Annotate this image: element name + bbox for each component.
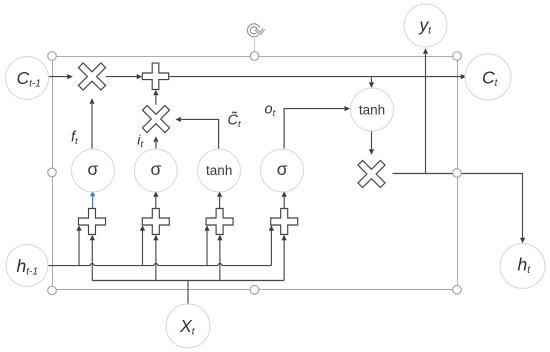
svg-text:tanh: tanh (359, 103, 385, 118)
svg-text:σ: σ (87, 159, 98, 179)
svg-text:σ: σ (150, 159, 161, 179)
svg-text:tanh: tanh (206, 163, 232, 178)
svg-text:σ: σ (277, 159, 288, 179)
